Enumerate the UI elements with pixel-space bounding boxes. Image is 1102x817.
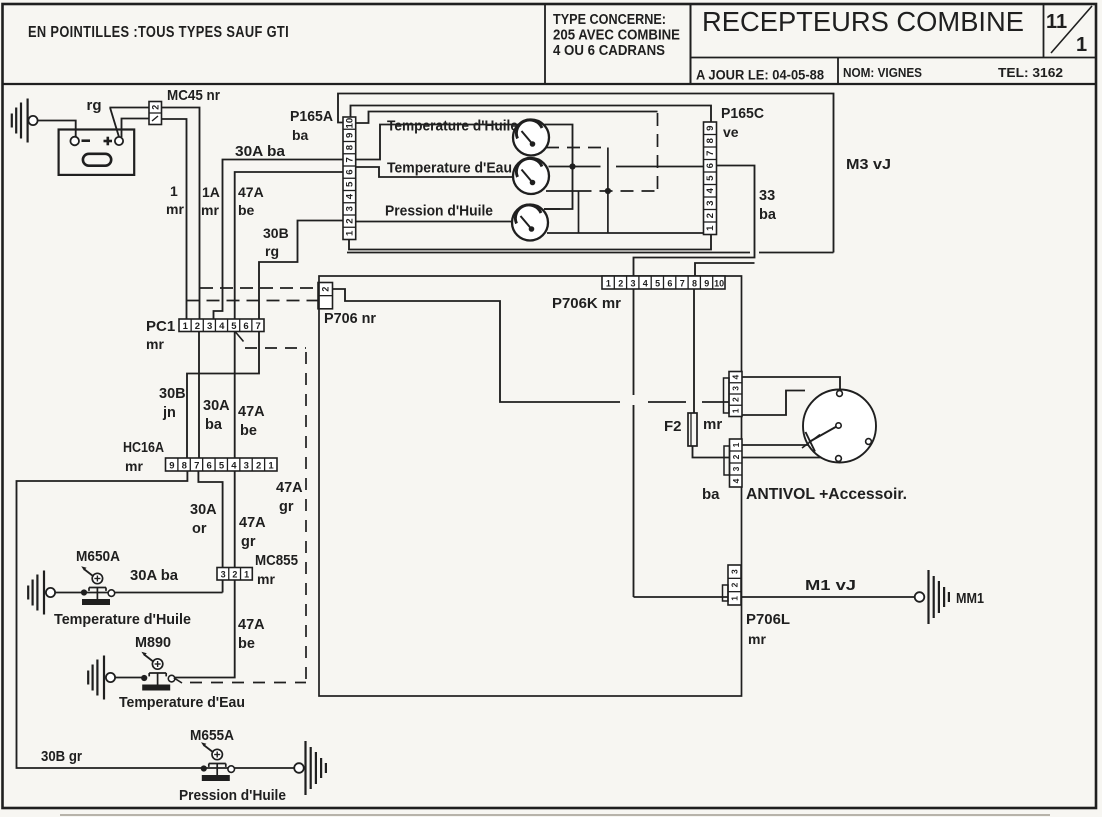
- gauge: temperature d'eau: [513, 158, 549, 194]
- svg-text:3: 3: [731, 466, 741, 471]
- svg-text:1: 1: [731, 408, 741, 413]
- svg-text:P706 nr: P706 nr: [324, 310, 376, 327]
- wire: F2 to lower connector pin2: [693, 446, 730, 458]
- wire: oil temp gauge to node A: [544, 125, 573, 210]
- wire V2 down: [578, 191, 580, 233]
- svg-text:10: 10: [714, 278, 724, 288]
- svg-text:205 AVEC COMBINE: 205 AVEC COMBINE: [553, 28, 680, 44]
- divider: title / sheet-number box: [1043, 4, 1045, 58]
- ground G2 (M650A): [27, 586, 29, 600]
- dashed wire V4 down: [657, 113, 659, 191]
- svg-text:be: be: [238, 636, 255, 652]
- wire: antivol feed continue: [648, 401, 686, 403]
- wire M1 to P706L pin 1: [634, 596, 729, 598]
- wire 30B jn: PC1 pin7 to HC16A pin8: [187, 332, 259, 459]
- svg-text:4: 4: [731, 374, 741, 379]
- wire: P165A pin7 to oil temp gauge: [356, 125, 518, 160]
- svg-text:F2: F2: [664, 418, 682, 435]
- svg-text:6: 6: [345, 169, 356, 174]
- wire: battery plus to MC45 pin 1: [122, 119, 150, 138]
- wire 30B rg: P165A pin 2 to PC1 pin 7: [259, 221, 343, 320]
- node A junction dot: [569, 163, 575, 169]
- dashed wire 47A gr horizontal: [245, 347, 306, 349]
- svg-text:9: 9: [704, 278, 709, 288]
- svg-text:P706K mr: P706K mr: [552, 295, 621, 312]
- svg-text:47A: 47A: [238, 617, 265, 633]
- svg-text:2: 2: [345, 218, 356, 223]
- connector MC45: [149, 102, 162, 125]
- svg-text:1: 1: [244, 569, 249, 579]
- svg-text:2: 2: [232, 569, 237, 579]
- svg-text:mr: mr: [125, 458, 143, 474]
- svg-text:ba: ba: [205, 417, 223, 433]
- svg-text:MC855: MC855: [255, 553, 298, 569]
- wire 1A mr: MC45 to PC1 pin 2: [162, 108, 200, 320]
- svg-text:P165A: P165A: [290, 108, 333, 125]
- svg-text:2: 2: [618, 278, 623, 288]
- svg-text:3: 3: [345, 206, 356, 211]
- svg-text:1: 1: [730, 596, 740, 601]
- svg-text:5: 5: [345, 181, 356, 187]
- svg-text:MC45 nr: MC45 nr: [167, 87, 220, 104]
- battery plus sign: [104, 140, 113, 143]
- svg-text:30B: 30B: [263, 225, 289, 241]
- dashed wire 47A gr to M890: [190, 682, 306, 684]
- dashed wire 47A gr vertical: [305, 352, 307, 682]
- gauge: temperature d'huile: [513, 120, 549, 156]
- ignition switch circle: [803, 390, 876, 463]
- svg-text:3: 3: [244, 460, 249, 471]
- svg-text:be: be: [238, 202, 255, 218]
- svg-text:2: 2: [731, 454, 741, 459]
- svg-text:Pression d'Huile: Pression d'Huile: [385, 203, 493, 220]
- svg-text:or: or: [192, 521, 207, 537]
- svg-text:2: 2: [256, 460, 261, 471]
- svg-text:jn: jn: [162, 405, 176, 421]
- wire 47A be: P165A pin 6 through PC1-5 HC16A-4 MC855-2 to M890: [175, 172, 344, 678]
- fuse F2: [688, 413, 697, 446]
- svg-text:1: 1: [731, 442, 741, 447]
- svg-text:mr: mr: [146, 336, 164, 352]
- svg-text:7: 7: [256, 321, 261, 332]
- svg-text:TYPE CONCERNE:: TYPE CONCERNE:: [553, 12, 666, 28]
- svg-text:1: 1: [705, 225, 716, 231]
- svg-text:PC1: PC1: [146, 318, 175, 335]
- divider: pointilles box / type box: [544, 4, 546, 84]
- svg-text:A JOUR LE: 04-05-88: A JOUR LE: 04-05-88: [696, 68, 824, 83]
- svg-text:8: 8: [182, 460, 187, 471]
- wire: P706K pin8 to fuse F2: [693, 289, 695, 413]
- battery plus terminal: [115, 137, 123, 145]
- connector HC16A: [166, 458, 278, 471]
- wire: pin1 to switch left: [742, 391, 805, 416]
- battery minus terminal: [70, 137, 79, 146]
- dashed wire row2 to P706: [187, 300, 319, 302]
- svg-text:6: 6: [243, 321, 248, 332]
- node B junction dot: [605, 188, 611, 194]
- svg-text:3: 3: [630, 278, 635, 288]
- svg-text:ve: ve: [723, 124, 739, 140]
- svg-text:4: 4: [219, 321, 225, 332]
- wire: ground to M890: [115, 677, 144, 679]
- svg-text:ba: ba: [292, 127, 309, 143]
- antivol enclosure box: [319, 276, 742, 696]
- svg-text:1: 1: [268, 460, 274, 471]
- wire: P165A pin6 to water temp gauge: [356, 167, 513, 177]
- svg-text:mr: mr: [166, 201, 184, 217]
- svg-text:47A: 47A: [238, 184, 264, 200]
- cluster box bottom edge: [347, 252, 750, 254]
- wire 33 ba: P165C pin6 down to P706K pin3: [634, 166, 755, 277]
- wire: P706 to antivol feed: [333, 289, 621, 402]
- svg-text:2: 2: [150, 105, 160, 110]
- wire: lower pin2 to switch bottom: [742, 457, 821, 459]
- wire: P165A pin10 top rail to P165C pin9: [351, 106, 712, 123]
- wire 30A ba: to P165A pin 7 and down to PC1 pin 3: [214, 160, 344, 320]
- svg-text:M655A: M655A: [190, 728, 234, 744]
- svg-text:3: 3: [221, 569, 226, 579]
- wire M1 vJ: [741, 596, 915, 598]
- svg-text:mr: mr: [748, 631, 766, 647]
- svg-text:ba: ba: [702, 486, 720, 503]
- svg-text:5: 5: [655, 278, 660, 288]
- svg-text:47A: 47A: [276, 480, 303, 496]
- svg-text:1: 1: [345, 230, 356, 236]
- wire 30A or: HC16A pin7 to M650A: [198, 471, 222, 593]
- ground G1 (battery): [11, 114, 13, 128]
- svg-text:2: 2: [195, 321, 200, 332]
- wire: water temp gauge lower exit: [546, 190, 579, 192]
- connector P706K: [602, 276, 725, 289]
- svg-text:TEL: 3162: TEL: 3162: [998, 65, 1063, 80]
- contact tick M890: [174, 678, 182, 683]
- svg-text:M3 vJ: M3 vJ: [846, 156, 891, 173]
- svg-text:4: 4: [231, 460, 237, 471]
- battery BB00: [59, 130, 135, 175]
- wire 30A: PC1 pin2 to HC16A pin7: [198, 332, 200, 459]
- svg-text:4: 4: [345, 193, 356, 199]
- sender M655A: [201, 765, 207, 771]
- svg-text:9: 9: [705, 126, 716, 131]
- title block mid rule: [691, 57, 1097, 59]
- svg-text:30A: 30A: [190, 502, 217, 518]
- wire: oil pressure gauge upper to node A: [544, 208, 560, 210]
- dashed wire: node B to V4: [579, 190, 658, 192]
- svg-text:Temperature d'Eau: Temperature d'Eau: [119, 694, 245, 711]
- divider: a-jour / nom: [837, 58, 839, 85]
- dashed wire: oil temp gauge lower to node B: [546, 147, 608, 149]
- svg-text:7: 7: [680, 278, 685, 288]
- ground MM1: [915, 592, 925, 602]
- svg-text:1: 1: [1076, 34, 1087, 56]
- svg-text:4: 4: [643, 278, 648, 288]
- wire: P706K pin3 down: [633, 289, 635, 395]
- switch top contact: [837, 391, 843, 397]
- wire: P165C to P706K pin8: [695, 263, 755, 276]
- divider: type box / title box: [690, 4, 692, 84]
- svg-text:5: 5: [705, 175, 716, 181]
- wire: P165A pin10 right to node V4: [356, 112, 658, 124]
- svg-text:RECEPTEURS COMBINE: RECEPTEURS COMBINE: [702, 6, 1024, 37]
- svg-text:M890: M890: [135, 635, 171, 651]
- svg-text:mr: mr: [201, 202, 219, 218]
- ground G4 (M655A right): [294, 763, 304, 773]
- svg-text:4 OU 6 CADRANS: 4 OU 6 CADRANS: [553, 43, 665, 59]
- svg-text:9: 9: [345, 133, 356, 138]
- wire V3: node B down: [607, 148, 609, 234]
- svg-text:4: 4: [705, 187, 716, 193]
- svg-text:11: 11: [1046, 11, 1067, 33]
- svg-text:2: 2: [320, 287, 330, 292]
- svg-text:30A ba: 30A ba: [235, 144, 286, 160]
- svg-text:EN POINTILLES :TOUS TYPES SAUF: EN POINTILLES :TOUS TYPES SAUF GTI: [28, 24, 289, 41]
- wire: P165A pin2 to oil pressure gauge: [356, 221, 512, 223]
- svg-text:8: 8: [705, 137, 716, 143]
- connector PC1: [179, 319, 264, 332]
- switch center pivot: [836, 423, 841, 428]
- switch right contact: [866, 439, 872, 445]
- svg-text:1A: 1A: [202, 184, 220, 200]
- svg-text:Pression d'Huile: Pression d'Huile: [179, 787, 286, 804]
- svg-text:7: 7: [705, 151, 716, 156]
- switch bottom contact: [836, 456, 842, 462]
- svg-text:MM1: MM1: [956, 591, 984, 607]
- svg-text:P706L: P706L: [746, 611, 790, 628]
- wire: ground to M650A and 30A: [55, 592, 223, 594]
- battery cell oval: [83, 154, 111, 166]
- connector P706: [318, 283, 333, 309]
- connector P706L: [728, 565, 741, 605]
- svg-text:6: 6: [705, 163, 716, 168]
- wire: cluster ground rail: [349, 235, 711, 250]
- connector antivol lower 1234: [730, 439, 743, 487]
- svg-text:Temperature d'Huile: Temperature d'Huile: [54, 611, 191, 628]
- svg-text:NOM: VIGNES: NOM: VIGNES: [843, 65, 922, 80]
- svg-text:8: 8: [692, 278, 697, 288]
- svg-text:P165C: P165C: [721, 105, 764, 122]
- wire: gauge bottoms bus: [547, 232, 710, 234]
- svg-text:1: 1: [183, 321, 189, 332]
- svg-text:rg: rg: [87, 97, 102, 114]
- svg-text:30B gr: 30B gr: [41, 749, 82, 765]
- svg-text:5: 5: [219, 460, 225, 471]
- svg-text:7: 7: [194, 460, 199, 471]
- connector P165C: [704, 122, 717, 235]
- svg-text:Temperature d'Huile: Temperature d'Huile: [387, 118, 518, 135]
- battery minus sign: [82, 139, 91, 142]
- svg-text:4: 4: [731, 478, 741, 483]
- svg-text:3: 3: [207, 321, 212, 332]
- svg-text:30A: 30A: [203, 398, 230, 414]
- switch lever cross: [806, 432, 816, 452]
- tick at PC1 pin 5: [236, 332, 244, 342]
- svg-text:mr: mr: [703, 416, 722, 433]
- svg-text:Temperature d'Eau: Temperature d'Eau: [387, 160, 512, 177]
- svg-text:gr: gr: [241, 534, 256, 550]
- svg-text:5: 5: [231, 321, 237, 332]
- svg-text:6: 6: [667, 278, 672, 288]
- svg-text:6: 6: [206, 460, 211, 471]
- svg-text:ANTIVOL +Accessoir.: ANTIVOL +Accessoir.: [746, 486, 907, 503]
- connector antivol upper 1234: [729, 372, 742, 417]
- wire: lower pin1 to switch: [742, 444, 809, 446]
- svg-text:30A ba: 30A ba: [130, 568, 179, 584]
- svg-text:47A: 47A: [238, 404, 265, 420]
- svg-text:1: 1: [170, 183, 178, 199]
- svg-text:3: 3: [705, 201, 716, 206]
- svg-text:be: be: [240, 423, 257, 439]
- wire: water temp gauge to P165C pin 6: [549, 166, 601, 168]
- svg-text:M650A: M650A: [76, 549, 120, 565]
- wire 1 mr: MC45 to PC1 pin 1: [162, 119, 187, 319]
- svg-text:ba: ba: [759, 207, 777, 223]
- svg-text:2: 2: [730, 582, 740, 587]
- svg-text:gr: gr: [279, 499, 294, 515]
- dashed wire row1 to P706: [200, 287, 318, 289]
- sender M890: [141, 675, 147, 681]
- wire rg: battery plus to MC45 pin 2: [110, 108, 149, 138]
- svg-text:47A: 47A: [239, 515, 266, 531]
- svg-text:1: 1: [606, 278, 611, 288]
- connector MC855: [217, 568, 252, 581]
- svg-text:7: 7: [345, 157, 356, 162]
- wire: pin4 to switch top contact: [742, 377, 840, 390]
- instrument cluster M3 box top/right: [338, 94, 834, 253]
- svg-text:30B: 30B: [159, 386, 186, 402]
- sender M650A: [81, 589, 87, 595]
- wire 30B gr: HC16A pin8 to M655A: [17, 471, 295, 768]
- svg-text:9: 9: [169, 460, 174, 471]
- sheet number diagonal: [1051, 6, 1092, 53]
- svg-text:33: 33: [759, 188, 775, 204]
- svg-text:3: 3: [730, 569, 740, 574]
- page bottom scan shadow: [60, 814, 1050, 816]
- switch lever: [809, 427, 837, 443]
- connector P165A: [343, 117, 356, 240]
- svg-text:2: 2: [705, 213, 716, 218]
- gauge: pression d'huile: [512, 205, 548, 241]
- svg-text:3: 3: [731, 386, 741, 391]
- svg-text:rg: rg: [265, 243, 279, 259]
- svg-text:10: 10: [345, 118, 356, 129]
- ground G3 (M890): [87, 671, 89, 685]
- svg-text:HC16A: HC16A: [123, 440, 164, 456]
- svg-text:M1 vJ: M1 vJ: [805, 577, 856, 594]
- title strip bottom rule: [3, 83, 1097, 85]
- wire: ground to battery minus: [38, 121, 76, 137]
- svg-text:8: 8: [345, 144, 356, 150]
- svg-text:mr: mr: [257, 571, 275, 587]
- svg-text:2: 2: [731, 397, 741, 402]
